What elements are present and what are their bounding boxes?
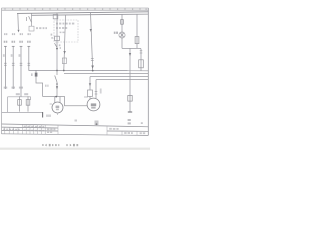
K1 label smudge [31,73,33,76]
V terminal tick [90,29,92,32]
S2 arrow mark [56,86,58,89]
M2 feed right wire [95,80,97,98]
M2 label smudge right [100,89,102,94]
title block table [2,124,149,135]
bus L2 wire [32,14,149,15]
M2 label dash [84,96,88,98]
wire phase 4 [28,47,30,71]
overload relay box F2 [8,97,31,112]
M2 left lead [89,96,91,99]
node feed arrow [18,30,20,33]
M2 capacitor box [88,90,93,96]
fuse dashes [4,63,30,65]
plug connector X3 [128,96,132,102]
lamp branch wire [121,14,123,48]
wire feed drop left [17,13,20,29]
control bus H4 wire [96,79,148,81]
node H1 T1 [56,70,58,72]
viewer toolbar icons [42,144,78,147]
node drop H1 [63,70,65,72]
control bus H2 wire [64,73,148,75]
frame band numbers [12,9,147,10]
wire end label smudges [4,87,23,89]
M1 lead 1 [54,97,56,103]
node above table [96,123,98,125]
aux ticks [140,51,143,53]
S2 switch contact [55,71,57,97]
wire phase 1 [4,47,6,90]
corner label smudge [46,115,51,117]
V contact marks [91,59,94,61]
table left dividers [5,124,137,135]
wire to PE bar [129,101,131,112]
F2 bottom line [2,111,43,113]
M1 lead 2 [59,97,61,103]
frame top band [2,8,149,10]
resistor R1 [139,60,144,68]
PE bar [128,111,132,113]
wire phase 2 [12,47,14,90]
branch T1 vertical wire [56,13,58,71]
T1 mid box [55,36,60,40]
control bus H1 wire [29,69,149,71]
fuse F3 [121,20,124,25]
phase label smudges row1 [4,33,31,35]
T1 switch contact [55,43,58,47]
node T1 [56,48,58,50]
bus L1 wire [17,12,148,14]
frame band column ticks [5,8,140,10]
coil branch wire [136,14,138,48]
link box [29,26,34,31]
device enclosure box [54,20,78,42]
V arrow [91,66,94,69]
motor M1 text [56,106,60,108]
motor M1 [52,102,63,113]
branch V vertical wire [91,12,93,70]
drop continuation wire [129,48,131,95]
drop arrow tick [63,51,65,54]
table text smudges [3,126,145,135]
M1 left tick [50,103,52,105]
node S2 [56,83,58,85]
aux branch wire [140,49,142,71]
coil K2 [135,37,139,44]
frame right border [147,8,149,135]
enclosure text rows [56,23,74,33]
drop arrow [129,53,131,56]
terminal ticks top [4,45,30,47]
F2 labels [16,93,28,95]
K1 coil leads [35,71,37,73]
lamp label smudge [114,32,118,34]
label smudge S-row [36,27,47,29]
PE label smudges [128,119,143,124]
node M1 [55,96,57,98]
drop component box [62,58,66,64]
wire K1 bottom [36,77,43,97]
control bus H3 wire [90,76,148,78]
M2 feed left wire [89,77,91,90]
M2 right ticks [95,92,98,95]
contactor K1 coil [35,73,38,77]
phase label smudges row2 [4,41,31,43]
frame left border [1,8,3,134]
above-table text [75,120,99,126]
M1 bottom tick [57,113,59,115]
bottom status strip [0,148,150,150]
F2 corner mark [42,112,44,118]
wire phase 3 [20,47,22,97]
mid label smudges [3,54,20,57]
node V H1 [92,70,94,72]
main switch Q1 [27,13,32,26]
T1 specks [51,34,61,49]
wire label smudge [45,85,49,87]
F2 element 2 [26,96,30,111]
T1 top box [53,15,58,19]
branch drop from L2 wire [64,15,66,71]
M2 feed arrow [89,83,91,86]
F2 element 1 [18,96,22,111]
motor M2 text [91,103,96,106]
connecting wire H5 [122,47,141,49]
frame band fill [2,8,149,10]
lamp H1 [119,32,125,38]
motor M2 [87,98,100,111]
M1 header wire [43,97,88,106]
